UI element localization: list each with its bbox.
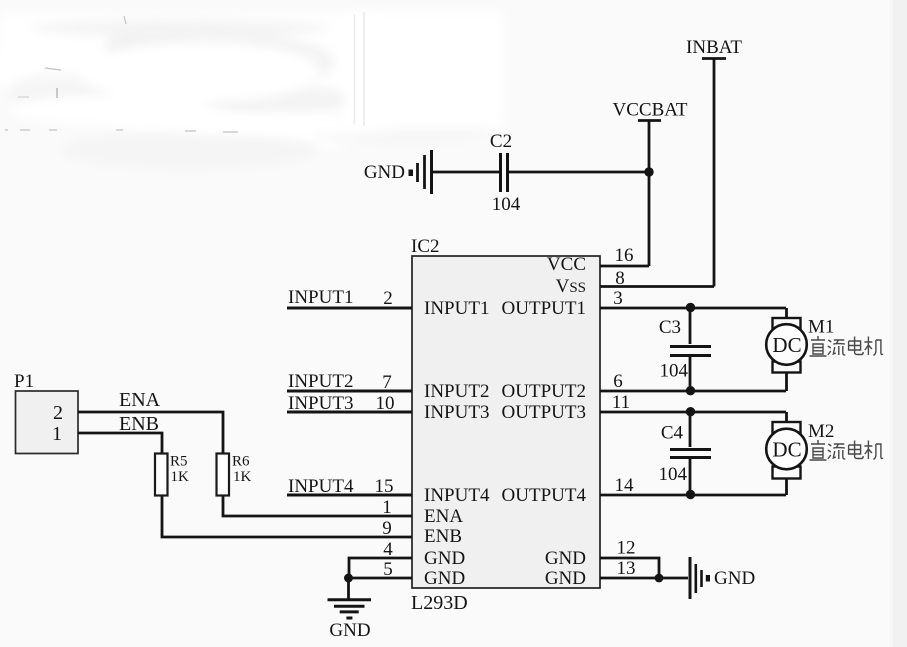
right edge scan band xyxy=(893,0,907,647)
junction node pin6/C3 xyxy=(686,386,695,395)
pin 12 wire GND xyxy=(600,558,659,578)
junction node pin3/C3 xyxy=(686,303,695,312)
svg-text:GND: GND xyxy=(424,568,465,589)
wire IC pin4 GND xyxy=(348,558,412,578)
svg-text:OUTPUT4: OUTPUT4 xyxy=(502,485,587,506)
svg-text:INBAT: INBAT xyxy=(686,37,742,58)
svg-text:OUTPUT3: OUTPUT3 xyxy=(502,402,586,423)
svg-text:3: 3 xyxy=(613,288,623,309)
svg-text:GND: GND xyxy=(364,162,405,183)
svg-text:1K: 1K xyxy=(233,469,252,485)
resistor R6 xyxy=(217,454,252,496)
wire ENB: P1 pin1 to R5 to IC pin9 xyxy=(78,433,412,537)
svg-text:6: 6 xyxy=(613,371,623,392)
svg-text:GND: GND xyxy=(329,620,370,641)
svg-text:1K: 1K xyxy=(171,469,190,485)
svg-text:15: 15 xyxy=(375,476,394,497)
pin 14 wire OUTPUT4 xyxy=(600,494,786,497)
svg-text:C3: C3 xyxy=(659,317,681,338)
svg-text:VCC: VCC xyxy=(547,254,586,275)
svg-text:INPUT1: INPUT1 xyxy=(424,298,489,319)
svg-text:5: 5 xyxy=(383,559,393,580)
net INPUT4 xyxy=(287,476,412,497)
svg-text:13: 13 xyxy=(617,558,636,579)
svg-text:P1: P1 xyxy=(14,371,34,392)
svg-text:DC: DC xyxy=(772,333,801,357)
svg-text:GND: GND xyxy=(545,568,586,589)
svg-text:INPUT1: INPUT1 xyxy=(288,287,353,308)
svg-text:8: 8 xyxy=(615,268,625,289)
wire ENA: P1 pin2 to R6 to IC pin1 xyxy=(78,412,412,516)
svg-text:ENA: ENA xyxy=(119,389,161,411)
svg-text:GND: GND xyxy=(424,548,465,569)
capacitor C4 xyxy=(659,412,712,495)
svg-text:INPUT2: INPUT2 xyxy=(288,371,353,392)
svg-text:2: 2 xyxy=(383,288,393,309)
ground (battery style) right of pin13 xyxy=(690,557,710,599)
svg-text:ENB: ENB xyxy=(424,526,462,547)
ground (battery style) top near C2 xyxy=(409,150,432,194)
svg-text:12: 12 xyxy=(617,538,636,559)
svg-text:9: 9 xyxy=(382,518,392,539)
net INPUT3 xyxy=(287,393,412,414)
pin 11 wire OUTPUT3 xyxy=(600,411,786,414)
IC IC2 L293D body xyxy=(411,236,600,614)
svg-text:1: 1 xyxy=(52,423,62,445)
pin 6 wire OUTPUT2 xyxy=(600,390,786,393)
svg-text:R6: R6 xyxy=(232,454,250,470)
svg-text:C4: C4 xyxy=(661,423,684,444)
svg-text:16: 16 xyxy=(615,245,634,266)
svg-text:7: 7 xyxy=(382,372,392,393)
junction pin4/5 xyxy=(344,574,353,583)
junction node pin11/C4 xyxy=(686,407,695,416)
pin 3 wire OUTPUT1 xyxy=(600,307,786,310)
node junction on VCCBAT wire xyxy=(644,167,653,176)
svg-text:IC2: IC2 xyxy=(411,236,440,257)
svg-text:R5: R5 xyxy=(170,454,188,470)
junction pin12/13 xyxy=(655,574,664,583)
svg-text:4: 4 xyxy=(383,539,393,560)
wire C2 to VCCBAT node xyxy=(509,171,649,174)
svg-text:1: 1 xyxy=(382,497,392,518)
svg-text:VSS: VSS xyxy=(556,276,586,297)
motor M1 xyxy=(766,308,834,391)
pin 16 wire VCC xyxy=(600,265,649,268)
ground earth below IC xyxy=(328,578,372,618)
power flag INBAT xyxy=(686,37,742,287)
svg-text:104: 104 xyxy=(660,361,689,382)
wire GND to C2 xyxy=(432,171,500,174)
svg-text:104: 104 xyxy=(659,464,688,485)
connector P1 xyxy=(14,371,78,454)
svg-text:104: 104 xyxy=(492,194,521,215)
svg-text:14: 14 xyxy=(615,475,635,496)
svg-text:ENA: ENA xyxy=(424,506,463,527)
svg-text:DC: DC xyxy=(772,438,801,462)
svg-text:OUTPUT1: OUTPUT1 xyxy=(502,298,586,319)
pin 13 wire GND xyxy=(600,577,688,580)
power flag VCCBAT xyxy=(613,100,688,267)
svg-text:C2: C2 xyxy=(490,131,512,152)
net INPUT1 xyxy=(287,287,412,309)
pin 8 wire Vss xyxy=(600,285,714,288)
svg-text:INPUT4: INPUT4 xyxy=(424,485,490,506)
svg-text:OUTPUT2: OUTPUT2 xyxy=(502,381,586,402)
svg-text:GND: GND xyxy=(545,548,586,569)
svg-text:INPUT3: INPUT3 xyxy=(424,402,489,423)
svg-text:GND: GND xyxy=(714,568,755,589)
svg-text:2: 2 xyxy=(53,402,63,424)
junction node pin14/C4 xyxy=(686,490,695,499)
capacitor C3 xyxy=(659,308,711,391)
label DC motor chinese M2 xyxy=(810,440,883,460)
net INPUT2 xyxy=(287,371,412,393)
svg-text:L293D: L293D xyxy=(411,592,468,614)
svg-text:M2: M2 xyxy=(808,421,834,442)
svg-text:M1: M1 xyxy=(808,317,834,338)
IC2 inside pin labels right xyxy=(502,254,587,589)
capacitor C2 xyxy=(501,153,508,192)
svg-text:VCCBAT: VCCBAT xyxy=(613,100,688,121)
motor M2 xyxy=(766,412,834,495)
resistor R5 xyxy=(155,454,189,496)
IC2 inside pin labels left xyxy=(424,298,490,589)
svg-text:11: 11 xyxy=(612,392,630,413)
svg-text:10: 10 xyxy=(376,393,395,414)
svg-text:INPUT2: INPUT2 xyxy=(424,381,489,402)
label DC motor chinese M1 xyxy=(810,336,883,356)
